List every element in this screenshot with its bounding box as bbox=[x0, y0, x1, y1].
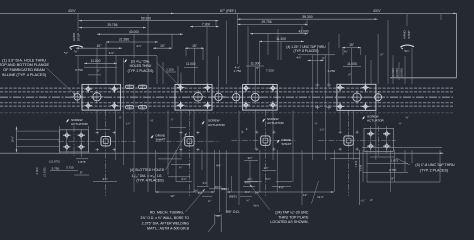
arrow top mid bbox=[171, 13, 174, 15]
left vertical dimension line bbox=[16, 127, 18, 153]
dimension line row y55 left bbox=[75, 54, 157, 56]
bolt symbol P4 top-left bbox=[336, 84, 344, 92]
dimension 29.756 right bbox=[237, 23, 307, 25]
svg-text:(2) ¹³⁄₁₆" DIA.: (2) ¹³⁄₁₆" DIA. bbox=[131, 60, 150, 64]
svg-text:⅞": ⅞" bbox=[398, 122, 401, 126]
svg-text:MAT'L.: ASTM A-500 GR.B: MAT'L.: ASTM A-500 GR.B bbox=[147, 227, 190, 231]
screw actuator A1 inner bbox=[103, 139, 108, 144]
dim row y127 between beam and A2 bbox=[170, 127, 186, 129]
svg-text:OF FABRICATED BEAM: OF FABRICATED BEAM bbox=[3, 68, 45, 72]
slotted hole S1 bbox=[125, 85, 133, 88]
svg-text:SHAFT: SHAFT bbox=[282, 142, 292, 146]
label DRIVE SHAFT A3 bbox=[277, 140, 280, 144]
svg-text:5": 5" bbox=[322, 57, 325, 61]
dim row y165 mid bbox=[171, 164, 190, 166]
bolt symbol P4 bottom-left bbox=[336, 103, 344, 111]
svg-text:IN-LINE (TYP. 4 PLACES): IN-LINE (TYP. 4 PLACES) bbox=[2, 73, 47, 77]
slot center mark right 4 bbox=[327, 105, 331, 109]
arrow at tube od right bbox=[218, 215, 221, 217]
left dim tie line 2 bbox=[17, 138, 60, 140]
dimension 11.000 left bbox=[84, 62, 117, 64]
bolt symbol BR4 bbox=[383, 142, 390, 149]
svg-text:43.000: 43.000 bbox=[298, 29, 308, 33]
screw actuator A4 corner tick marks bbox=[339, 131, 342, 134]
bolt pattern rectangle right of A4 bbox=[364, 128, 393, 151]
bolt symbol P4 top-right bbox=[362, 84, 370, 92]
dimension 11.000 right bbox=[343, 66, 361, 68]
bolt rect right centerline bbox=[378, 126, 380, 156]
dimension 7.300 center bbox=[190, 26, 219, 28]
svg-text:4⅞": 4⅞" bbox=[279, 186, 284, 190]
svg-text:3.000: 3.000 bbox=[35, 167, 39, 174]
svg-text:3.938: 3.938 bbox=[359, 164, 363, 171]
bolt symbol P1 top-right bbox=[111, 85, 119, 93]
beam hidden line rail 4 bbox=[0, 105, 453, 107]
beam faint hidden line below bbox=[0, 112, 453, 114]
dim row y60 right-mid bbox=[307, 59, 323, 61]
svg-text:⅝": ⅝" bbox=[241, 130, 245, 133]
svg-text:10": 10" bbox=[97, 44, 103, 48]
svg-text:(TYP. 2 PLACES): (TYP. 2 PLACES) bbox=[128, 69, 154, 73]
svg-text:(12.875): (12.875) bbox=[49, 159, 60, 163]
dimension line row y55 right bbox=[298, 54, 335, 56]
dim line under 11.000 p2 bbox=[184, 66, 198, 68]
leader from tap note bbox=[250, 185, 270, 210]
dim row y196 ll bbox=[202, 195, 212, 197]
svg-text:43⅞": 43⅞" bbox=[373, 9, 382, 13]
screw actuator A4 body bbox=[344, 136, 353, 145]
svg-text:15": 15" bbox=[349, 43, 355, 47]
svg-text:THRU TOP PLATE: THRU TOP PLATE bbox=[278, 216, 309, 220]
svg-text:(4) 1"-8 UNC TAP THRU: (4) 1"-8 UNC TAP THRU bbox=[415, 163, 455, 167]
leader from slotted holes note bbox=[166, 134, 187, 170]
svg-text:1.250: 1.250 bbox=[166, 68, 174, 72]
extension lines above beam bbox=[77, 14, 79, 31]
extension lines below beam bbox=[59, 126, 61, 153]
dim line y148 right bbox=[362, 147, 442, 149]
svg-text:3⅞" O.D. x ⅜" WALL, BORE TO: 3⅞" O.D. x ⅜" WALL, BORE TO bbox=[140, 216, 189, 220]
bolt symbol BL2 bbox=[78, 132, 85, 139]
svg-text:4⅞": 4⅞" bbox=[136, 44, 141, 48]
svg-text:(3.625): (3.625) bbox=[43, 168, 47, 177]
bolt pattern rectangle left of A1 bbox=[60, 130, 89, 152]
arrow top right bbox=[454, 13, 457, 15]
leader to 1-8 UNC note bbox=[396, 158, 410, 165]
svg-text:⅙": ⅙" bbox=[344, 50, 348, 54]
dimension 1.875 right bbox=[367, 162, 408, 164]
svg-text:(TYP. 2 PLACES): (TYP. 2 PLACES) bbox=[420, 169, 448, 173]
svg-text:9": 9" bbox=[391, 176, 394, 180]
svg-text:(REF.): (REF.) bbox=[229, 195, 238, 199]
screw actuator A3 centerline vertical bbox=[264, 111, 266, 197]
screw actuator A3 corner tick marks bbox=[255, 131, 258, 134]
svg-text:TOP AND BOTTOM FLANGE: TOP AND BOTTOM FLANGE bbox=[0, 63, 49, 67]
dim line y181 a bbox=[176, 180, 192, 182]
svg-text:12": 12" bbox=[303, 193, 307, 197]
beam hidden line rail 3 bbox=[0, 102, 453, 104]
bolt symbol P2 bottom-right bbox=[204, 102, 212, 110]
dimension 59.300 left bbox=[79, 20, 219, 22]
svg-text:HOLES THRU: HOLES THRU bbox=[130, 64, 152, 68]
label SCREW ACTUATOR A3 bbox=[262, 119, 265, 123]
screw actuator A3 body bbox=[261, 136, 270, 145]
svg-text:(TYP. 4 PLACES): (TYP. 4 PLACES) bbox=[136, 179, 163, 183]
svg-text:⅜[≈]: ⅜[≈] bbox=[253, 204, 259, 208]
plate P4 bbox=[337, 84, 376, 110]
svg-text:4⅞": 4⅞" bbox=[296, 56, 301, 60]
bolt symbol BL4 bbox=[78, 143, 85, 150]
dimension 3.750 right bbox=[363, 171, 408, 173]
svg-text:¾": ¾" bbox=[208, 199, 211, 203]
svg-text:1⅞": 1⅞" bbox=[263, 166, 268, 170]
svg-text:11.000: 11.000 bbox=[91, 59, 101, 63]
svg-text:SHAFT: SHAFT bbox=[156, 138, 166, 142]
svg-text:3.750: 3.750 bbox=[75, 68, 83, 72]
svg-text:(TYP. 8 PLACES): (TYP. 8 PLACES) bbox=[294, 49, 319, 53]
bolt symbol BL3 bbox=[63, 143, 70, 150]
plate P2 bbox=[175, 84, 212, 110]
svg-text:2.375" DIA. AFTER WELDING: 2.375" DIA. AFTER WELDING bbox=[142, 221, 190, 225]
svg-text:HAND: HAND bbox=[403, 29, 407, 38]
screw actuator A1 corner tick marks bbox=[96, 131, 99, 134]
svg-text:3⅛": 3⅛" bbox=[247, 156, 252, 160]
svg-text:1₄⁄₁₆" DIA. x ¹³⁄₁₆" LG.: 1₄⁄₁₆" DIA. x ¹³⁄₁₆" LG. bbox=[132, 174, 163, 178]
svg-text:6⅞": 6⅞" bbox=[109, 51, 114, 55]
slot center mark right 3 bbox=[315, 105, 319, 109]
svg-text:29.756: 29.756 bbox=[261, 20, 271, 24]
svg-text:5.750: 5.750 bbox=[52, 167, 60, 171]
bolt symbol P1 bottom-right bbox=[111, 102, 119, 110]
svg-text:⅝": ⅝" bbox=[405, 116, 408, 120]
screw actuator A1 centerline vertical bbox=[105, 111, 107, 197]
dim line right y157 bbox=[370, 156, 394, 158]
svg-text:(REF.): (REF.) bbox=[221, 187, 229, 191]
screw actuator A1 centerline horizontal bbox=[58, 140, 136, 142]
dim row y159 right-mid bbox=[330, 158, 360, 160]
bolt symbol P2 bottom-left bbox=[177, 102, 185, 110]
dim row y186 rr bbox=[243, 186, 255, 188]
svg-text:(3.000): (3.000) bbox=[400, 68, 404, 77]
dim row y161 mid-right bbox=[244, 160, 258, 162]
svg-text:⅞": ⅞" bbox=[96, 69, 100, 73]
dim line y181 c bbox=[276, 181, 292, 183]
screw actuator A2 corner tick marks bbox=[179, 131, 182, 134]
drive shaft diagonal bbox=[208, 224, 215, 233]
svg-text:3.750: 3.750 bbox=[66, 166, 74, 170]
left dim tie line 1 bbox=[17, 130, 60, 132]
dim row y181 mid-right bbox=[244, 180, 258, 182]
svg-text:10": 10" bbox=[160, 44, 166, 48]
long dimension line lower bbox=[0, 152, 443, 154]
svg-text:67" (REF.): 67" (REF.) bbox=[220, 9, 236, 13]
svg-text:⅞": ⅞" bbox=[170, 118, 173, 122]
dimension row: overall 67in (REF.) top line bbox=[0, 12, 457, 14]
dimension 59.300 right bbox=[237, 18, 377, 20]
svg-text:1.750: 1.750 bbox=[234, 69, 242, 73]
svg-text:(4) 1.25"-7 UNC TAP THRU: (4) 1.25"-7 UNC TAP THRU bbox=[286, 45, 326, 49]
svg-text:(24) TAP ¼"-20 UNC: (24) TAP ¼"-20 UNC bbox=[275, 210, 309, 214]
screw actuator A2 inner bbox=[187, 139, 192, 144]
drive shaft tube line left bbox=[214, 214, 216, 224]
svg-text:⅞": ⅞" bbox=[380, 53, 384, 57]
svg-text:21.586: 21.586 bbox=[119, 38, 129, 42]
dimension 21.586 left bbox=[106, 41, 158, 43]
label SCREW ACTUATOR A1 bbox=[66, 119, 69, 123]
screw actuator A2 centerline horizontal bbox=[155, 140, 219, 142]
bolt symbol P4 bottom-right bbox=[362, 103, 370, 111]
slotted hole S4 bbox=[138, 106, 146, 109]
slotted hole S3 bbox=[125, 106, 133, 109]
bolt symbol BR2 bbox=[383, 130, 390, 137]
slot center tick S4 bbox=[140, 105, 145, 110]
bolt symbol P3 top-left bbox=[242, 84, 250, 92]
bolt rect left centerline bbox=[73, 126, 75, 156]
left dim tie line 3 bbox=[17, 145, 60, 147]
dimension 11.300 right bbox=[259, 40, 304, 42]
svg-text:⅛": ⅛" bbox=[150, 119, 153, 123]
extension lines through beam band at slot group bbox=[123, 84, 125, 111]
drive shaft tube line right bbox=[220, 214, 222, 232]
slot center tick S3 bbox=[127, 105, 132, 110]
bolt symbol BL1 bbox=[63, 132, 70, 139]
arrow at tube od left bbox=[215, 215, 218, 217]
screw actuator A4 centerline vertical bbox=[348, 111, 350, 197]
screw hole P1 bbox=[93, 93, 101, 101]
svg-text:1⅞": 1⅞" bbox=[126, 122, 131, 126]
svg-text:⅞": ⅞" bbox=[118, 116, 121, 120]
svg-text:ACTUATOR: ACTUATOR bbox=[267, 121, 284, 125]
dim row y181 left bbox=[93, 181, 117, 183]
svg-text:10½": 10½" bbox=[11, 136, 15, 142]
dim line y181 b bbox=[246, 181, 262, 183]
screw actuator A2 centerline vertical bbox=[188, 111, 190, 197]
beam hidden line rail 2 bbox=[0, 91, 453, 93]
dim row y177 mid bbox=[168, 176, 190, 178]
slot center tick S2 bbox=[140, 84, 145, 89]
slot center mark right 2 bbox=[327, 83, 331, 87]
slot center tick S1 bbox=[127, 84, 132, 89]
flange hole H1 bbox=[74, 94, 81, 101]
dimension 43.000 left bbox=[97, 33, 183, 35]
dimension row y192 left segment bbox=[155, 191, 214, 193]
screw actuator A4 centerline horizontal bbox=[318, 140, 396, 142]
dimension 43.000 right bbox=[250, 33, 308, 35]
svg-text:3.750: 3.750 bbox=[389, 168, 397, 172]
dim row y129 by A1 bbox=[96, 128, 110, 130]
svg-text:¾": ¾" bbox=[179, 166, 183, 170]
dim row y159 left-mid bbox=[158, 158, 182, 160]
svg-text:15": 15" bbox=[192, 44, 198, 48]
beam centerline bbox=[0, 96, 453, 98]
svg-text:7.250: 7.250 bbox=[266, 69, 274, 73]
svg-text:STOP: STOP bbox=[77, 33, 81, 41]
svg-text:LOCATED AS SHOWN.: LOCATED AS SHOWN. bbox=[270, 220, 308, 224]
label SCREW ACTUATOR A4 bbox=[362, 116, 365, 120]
svg-text:ACTUATOR: ACTUATOR bbox=[71, 122, 88, 126]
svg-text:HAND: HAND bbox=[72, 32, 76, 41]
svg-text:11.300: 11.300 bbox=[276, 37, 286, 41]
svg-text:11.000: 11.000 bbox=[347, 62, 357, 66]
svg-text:₅⁄₁₆": ₅⁄₁₆" bbox=[361, 198, 366, 202]
dim line under 11.000 left bbox=[84, 66, 117, 68]
svg-text:11⅞": 11⅞" bbox=[317, 195, 324, 199]
label DRIVE SHAFT A2 bbox=[151, 135, 154, 139]
svg-text:9": 9" bbox=[80, 171, 83, 175]
dim line y188 bbox=[209, 188, 227, 190]
bolt symbol P1 bottom-left bbox=[84, 102, 92, 110]
svg-text:1⅞": 1⅞" bbox=[320, 128, 325, 132]
screw hole P2 bbox=[194, 93, 203, 102]
svg-text:ACTUATOR: ACTUATOR bbox=[208, 123, 225, 127]
leader from tubing note bbox=[186, 190, 205, 213]
right border horizontal line bbox=[390, 77, 457, 79]
dimension 9 right bbox=[367, 181, 440, 183]
svg-text:2⅞": 2⅞" bbox=[181, 177, 186, 181]
svg-text:59.300: 59.300 bbox=[302, 15, 312, 19]
svg-text:⅙": ⅙" bbox=[64, 51, 68, 55]
dim line under 1.250 bbox=[166, 71, 177, 73]
bolt symbol P1 top-left bbox=[84, 85, 92, 93]
svg-text:⅞": ⅞" bbox=[348, 73, 352, 77]
bolt symbol P2 top-left bbox=[177, 84, 185, 92]
svg-text:1.875: 1.875 bbox=[78, 160, 86, 164]
dimension row y192 right segment bbox=[227, 191, 334, 193]
dim line y74 left bbox=[88, 74, 101, 76]
svg-text:7.875: 7.875 bbox=[354, 160, 358, 167]
svg-text:(4) SLOTTED HOLES: (4) SLOTTED HOLES bbox=[130, 168, 165, 172]
svg-text:59.300: 59.300 bbox=[141, 16, 151, 20]
svg-text:3½" O.D.: 3½" O.D. bbox=[226, 210, 240, 214]
svg-text:(1) 3.3" DIA. HOLE THRU: (1) 3.3" DIA. HOLE THRU bbox=[2, 58, 46, 62]
svg-text:5¼": 5¼" bbox=[404, 49, 409, 53]
slot center mark right 1 bbox=[315, 83, 319, 87]
bolt symbol P3 bottom-right bbox=[269, 101, 277, 109]
svg-text:(2.000): (2.000) bbox=[395, 68, 399, 77]
screw actuator A1 body bbox=[101, 137, 110, 146]
flange hole H2 bbox=[215, 93, 222, 100]
svg-text:⅛": ⅛" bbox=[370, 198, 373, 202]
screw actuator A4 inner bbox=[346, 138, 351, 143]
dimension 15in right bbox=[342, 47, 361, 49]
dim line left y170 bbox=[50, 169, 78, 171]
right border vertical line bbox=[456, 13, 458, 77]
svg-text:7.300: 7.300 bbox=[202, 22, 210, 26]
svg-text:4½": 4½" bbox=[216, 164, 221, 168]
dim row y196 rr bbox=[240, 195, 252, 197]
curved arrow left hand stop bbox=[70, 45, 84, 47]
screw actuator A3 inner bbox=[263, 138, 268, 143]
dimension 10in left bbox=[76, 47, 122, 49]
bolt symbol BR1 bbox=[367, 130, 374, 137]
dimension 10in left-b bbox=[153, 47, 172, 49]
svg-text:2⅞": 2⅞" bbox=[265, 177, 270, 181]
svg-text:4⅞": 4⅞" bbox=[244, 181, 249, 185]
screw hole P4 bbox=[353, 93, 361, 101]
dim line left y159 bbox=[76, 158, 88, 160]
svg-text:12": 12" bbox=[170, 194, 174, 198]
flange hole H4 bbox=[375, 94, 382, 101]
note (2) 13/16 DIA HOLES THRU bbox=[124, 59, 127, 63]
svg-text:5": 5" bbox=[256, 66, 259, 70]
right vertical dimension line bbox=[359, 150, 361, 205]
svg-text:4⅞": 4⅞" bbox=[102, 177, 107, 181]
leader diagonal near 12 right bbox=[312, 181, 319, 204]
leader from holes-thru note bbox=[158, 64, 181, 87]
label SCREW ACTUATOR A2 bbox=[202, 121, 205, 125]
beam hidden line rail 1 bbox=[0, 87, 453, 89]
svg-text:43⅞": 43⅞" bbox=[68, 9, 77, 13]
svg-text:⅟": ⅟" bbox=[245, 127, 249, 130]
slotted hole S2 bbox=[138, 85, 146, 88]
dim row y171 mid-right bbox=[262, 170, 276, 172]
svg-text:⅙": ⅙" bbox=[74, 49, 78, 53]
dimension 11.000 center-right bbox=[246, 65, 264, 67]
curved arrow right hand stop bbox=[401, 45, 415, 47]
leader from hole note to hole H1 bbox=[47, 68, 76, 95]
plate P1 bbox=[82, 84, 121, 110]
dimension 29.756 left bbox=[79, 27, 146, 29]
svg-text:RD. MECH. TUBING,: RD. MECH. TUBING, bbox=[150, 211, 184, 215]
svg-text:STOP: STOP bbox=[407, 30, 411, 38]
dim row y186 ll bbox=[197, 186, 209, 188]
svg-text:43.000: 43.000 bbox=[129, 30, 139, 34]
svg-text:⅞": ⅞" bbox=[314, 122, 317, 126]
dim line left y175 bbox=[74, 174, 89, 176]
bolt symbol BR3 bbox=[367, 142, 374, 149]
dimension 15in left bbox=[185, 47, 204, 49]
flange hole H3 bbox=[233, 94, 240, 101]
bolt symbol P3 bottom-left bbox=[242, 101, 250, 109]
bolt symbol P3 top-right bbox=[269, 84, 277, 92]
screw actuator A3 centerline horizontal bbox=[231, 140, 295, 142]
dim row y186 right bbox=[272, 186, 291, 188]
plate P3 bbox=[243, 84, 278, 110]
svg-text:¾": ¾" bbox=[246, 199, 249, 203]
bolt symbol P2 top-right bbox=[204, 84, 212, 92]
screw hole P3 bbox=[251, 93, 259, 101]
svg-text:29.756: 29.756 bbox=[107, 23, 117, 27]
screw actuator A2 body bbox=[185, 137, 194, 146]
